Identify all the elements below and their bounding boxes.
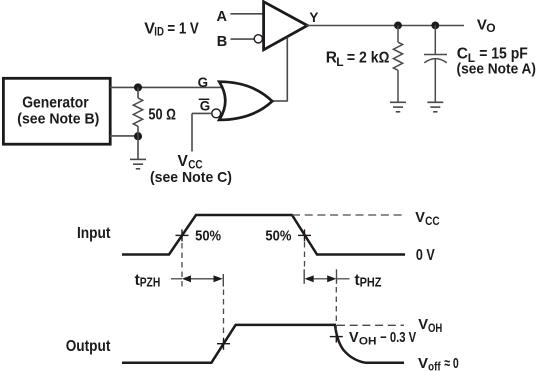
svg-text:PHZ: PHZ [360,275,382,289]
svg-text:V: V [178,153,189,170]
svg-text:= 2 kΩ: = 2 kΩ [347,49,390,66]
svg-text:PZH: PZH [140,275,161,289]
svg-text:Generator: Generator [22,95,89,112]
svg-text:A: A [217,9,228,25]
svg-text:L: L [336,55,343,69]
svg-text:− 0.3 V: − 0.3 V [380,330,416,346]
svg-text:50%: 50% [265,227,291,244]
svg-text:V: V [418,317,428,333]
svg-text:CC: CC [425,214,440,228]
svg-text:G: G [198,75,208,90]
svg-text:OH: OH [359,335,377,347]
svg-text:= 1 V: = 1 V [167,21,199,38]
svg-text:50 Ω: 50 Ω [148,106,176,123]
svg-text:0 V: 0 V [416,247,435,264]
svg-text:≈ 0: ≈ 0 [444,355,459,371]
svg-text:O: O [486,21,495,35]
svg-text:V: V [349,330,359,346]
svg-text:G: G [200,99,210,114]
svg-text:(see Note C): (see Note C) [150,169,232,186]
svg-text:Input: Input [77,225,111,242]
svg-text:B: B [217,34,227,50]
svg-text:R: R [326,49,337,66]
svg-text:(see Note A): (see Note A) [457,61,537,78]
svg-text:OH: OH [428,323,442,335]
svg-text:V: V [418,355,428,371]
svg-text:off: off [428,362,441,371]
svg-text:ID: ID [154,24,164,38]
svg-text:(see Note B): (see Note B) [17,111,99,128]
svg-text:Output: Output [66,338,111,355]
svg-text:Y: Y [309,10,318,25]
svg-text:V: V [415,210,425,226]
svg-text:50%: 50% [195,227,221,244]
